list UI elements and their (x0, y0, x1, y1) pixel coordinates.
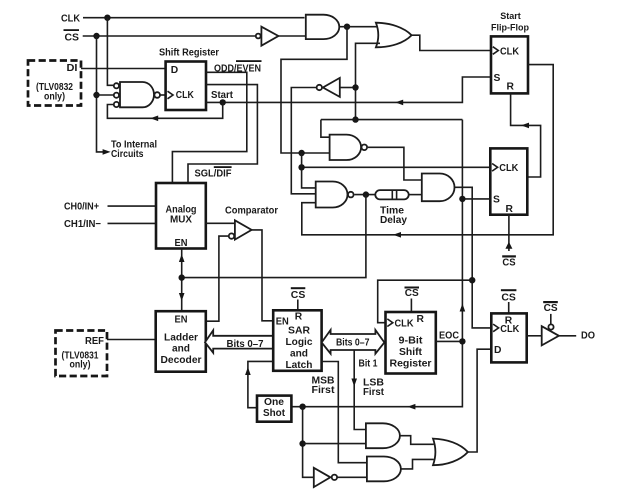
svg-text:S: S (493, 195, 500, 206)
wire FF1 R from FF2 output (511, 93, 541, 177)
svg-text:CLK: CLK (500, 46, 519, 57)
wire CH0 (108, 205, 157, 207)
arrow down on LSB line (351, 379, 357, 387)
box one shot (257, 396, 291, 422)
svg-text:SAR: SAR (288, 326, 311, 337)
wire SAR to one shot (248, 361, 273, 407)
svg-text:Comparator: Comparator (225, 206, 278, 217)
wire U8 out down to MUX EN rail (182, 195, 366, 278)
wire buffer out to AND (278, 35, 305, 37)
svg-text:Shift Register: Shift Register (159, 48, 219, 59)
box 9-bit shift register (386, 312, 436, 374)
svg-text:only): only) (70, 360, 91, 371)
nand gate U1 (3-input, top-left) (120, 82, 154, 107)
wire SGL/DIF to MUX (188, 85, 257, 183)
wire rail to NAND1 top input (321, 120, 330, 138)
svg-text:CS: CS (544, 303, 558, 314)
arrow up into MUX EN (179, 254, 185, 262)
nand gate U7 (2-input) (330, 135, 361, 160)
or gate U4 (top) (376, 23, 412, 48)
and gate U9 (422, 174, 455, 202)
box shift register (166, 62, 206, 111)
wire buffer to DO (559, 335, 576, 337)
nand gate U8 (3-input) (316, 182, 348, 208)
svg-text:Flip-Flop: Flip-Flop (491, 23, 529, 33)
wire Start main run (206, 77, 491, 102)
inverter U5 (left-pointing) (323, 78, 340, 97)
junction CLK (104, 15, 110, 21)
wire CH1 (108, 222, 157, 224)
junction NAND1 lower input tap (298, 150, 304, 156)
wire MUX to comparator (206, 222, 235, 224)
svg-text:R: R (507, 82, 515, 93)
wire EOC (436, 340, 463, 342)
arrow on Start line (395, 100, 403, 106)
bus arrow Bits 0-7 (to ladder) (205, 330, 273, 353)
svg-text:only): only) (44, 92, 65, 103)
svg-text:Latch: Latch (286, 360, 313, 371)
arrow on FF1 R wire (521, 123, 529, 129)
arrow on FF1 feedback (393, 232, 401, 238)
svg-text:CH0/IN+: CH0/IN+ (64, 202, 99, 213)
svg-text:EOC: EOC (439, 331, 459, 342)
svg-text:D: D (171, 65, 178, 76)
junction U8 output (363, 191, 369, 197)
pin CLK of FF2 (492, 164, 498, 172)
svg-text:R: R (506, 204, 514, 215)
wire MUX EN vertical (181, 249, 183, 312)
svg-text:and: and (172, 344, 190, 355)
wire CS drop (97, 36, 104, 152)
time delay element (375, 190, 408, 199)
flip-flop U16 (output FF) (491, 313, 526, 362)
bus arrow Bits 0-7 (double) (322, 330, 385, 354)
wire CS stub to buffer bubble (550, 314, 552, 325)
junction EOC rail top (352, 116, 358, 122)
svg-text:Ladder: Ladder (164, 333, 198, 344)
svg-text:Decoder: Decoder (161, 355, 202, 366)
wire CS stub to 9-bit R (410, 299, 412, 313)
svg-text:and: and (290, 349, 308, 360)
svg-text:Shot: Shot (263, 408, 286, 419)
flip-flop U6 (Start FF) (491, 36, 528, 93)
wire ODD/EVEN to MUX (172, 72, 246, 183)
svg-text:CS: CS (291, 290, 306, 301)
arrow up on EOC vertical (460, 304, 466, 312)
junction MUX EN rail (179, 274, 185, 280)
wire CLK drop to NAND input (107, 18, 113, 86)
wire CLK top rail (83, 17, 305, 19)
and gate U3 (top) (306, 15, 339, 39)
box ladder and decoder (156, 311, 206, 372)
svg-text:R: R (295, 311, 303, 322)
wire AND out down-left to NAND1 (281, 27, 347, 153)
svg-text:Bit 1: Bit 1 (359, 358, 378, 369)
svg-text:9-Bit: 9-Bit (399, 336, 424, 347)
svg-text:SGL/DIF: SGL/DIF (195, 169, 232, 180)
label CS above out FF (501, 289, 517, 291)
overline CS (64, 29, 80, 31)
wire NAND out to SR clock (160, 94, 166, 96)
wire U8 out to time delay (355, 194, 376, 196)
buffer U17 (DO, tri-state) (548, 324, 553, 329)
svg-text:CLK: CLK (176, 90, 194, 101)
svg-text:REF: REF (85, 336, 104, 347)
arrow to internal circuits (103, 149, 111, 155)
wire OR out to FF1 CLK (412, 35, 491, 50)
label CS above SAR (291, 287, 306, 289)
svg-text:Bits 0–7: Bits 0–7 (336, 338, 370, 349)
wire Bit 1 / LSB line (354, 350, 366, 430)
junction AND out (344, 24, 350, 30)
box REF TLV0831 (dashed) (56, 331, 108, 377)
junction CS to NAND (93, 92, 99, 98)
svg-text:MUX: MUX (170, 215, 192, 226)
wire rail down right side (EOC vertical) (291, 120, 462, 407)
svg-text:R: R (417, 314, 425, 325)
svg-text:Delay: Delay (380, 215, 407, 226)
junction U9 line and 9-bit clk feed (469, 277, 475, 283)
flip-flop U10 (second FF) (490, 148, 527, 214)
comparator U11 (235, 220, 252, 239)
wire 9-bit CLK feed (378, 280, 473, 323)
wire to AND b1 lower input (303, 443, 366, 445)
wire CS stub to out FF R (508, 302, 510, 313)
svg-text:First: First (312, 385, 336, 396)
svg-text:CLK: CLK (500, 324, 519, 335)
svg-text:EN: EN (175, 315, 188, 326)
wire OR out up to D (468, 349, 491, 452)
wire CS stub to SAR (297, 300, 299, 311)
svg-text:CS: CS (501, 292, 516, 303)
arrow up on one-shot wire (245, 367, 251, 375)
label CS under FF2 (502, 255, 516, 257)
svg-text:First: First (363, 387, 385, 398)
wire U14 out to OR (401, 459, 434, 469)
wire out FF Q to buffer (527, 335, 542, 337)
wire DI to D input (81, 68, 166, 70)
label CS above DO buffer (543, 301, 558, 303)
junction AND branch (299, 440, 305, 446)
svg-text:CS: CS (65, 33, 80, 44)
box SAR logic and latch (273, 310, 321, 371)
junction CS (93, 33, 99, 39)
label CS above 9-bit (405, 287, 420, 289)
wire comparator out to SAR EN (252, 230, 274, 321)
wire vertical x301.6 (302, 153, 316, 188)
svg-text:One: One (264, 397, 285, 408)
junction inverter input (352, 84, 358, 90)
wire CS to NAND mid input (97, 94, 114, 96)
svg-text:Logic: Logic (286, 337, 313, 348)
wire FF2 CLK line (302, 166, 491, 168)
svg-text:CS: CS (405, 288, 419, 299)
overline DIF (214, 166, 232, 168)
buffer U2 (CS inverter top) (256, 34, 261, 39)
wire FF2 R to CS (508, 215, 510, 251)
wire comparator lower input from ladder (206, 236, 229, 321)
wire horizontal rail y119.6 (321, 119, 463, 121)
and gate U14 (bottom bottom) (367, 457, 401, 482)
box analog MUX (156, 183, 206, 249)
wire inverter out (337, 476, 367, 478)
overline EVEN (236, 60, 262, 62)
svg-text:D: D (494, 345, 501, 356)
pin CLK of shift register (168, 91, 174, 99)
svg-text:DO: DO (581, 331, 595, 342)
svg-text:Circuits: Circuits (111, 149, 144, 160)
svg-text:CLK: CLK (499, 163, 518, 174)
svg-text:Bits 0–7: Bits 0–7 (227, 339, 264, 350)
svg-text:S: S (494, 73, 501, 84)
arrow down into Ladder EN (179, 293, 185, 301)
junction FF2 S (459, 196, 465, 202)
inverter U12 (bottom) (314, 468, 331, 487)
wire AND out to OR (339, 26, 379, 28)
arrow on feedback (150, 116, 158, 122)
svg-text:Register: Register (390, 359, 432, 370)
wire REF to ladder (107, 339, 156, 341)
svg-text:DI: DI (67, 63, 78, 74)
and gate U13 (bottom top) (366, 423, 400, 448)
wire FF1 Q output down right (302, 65, 553, 235)
svg-text:Shift: Shift (399, 347, 423, 358)
wire time delay to AND2 (409, 194, 422, 196)
wire Start feedback to NAND (107, 102, 222, 118)
pin CLK of FF1 (493, 47, 499, 55)
junction Start (220, 99, 226, 105)
wire U13 out to OR (400, 436, 434, 445)
wire U9 out down to out-FF CLK (455, 187, 492, 328)
wire OR bottom input (356, 43, 381, 119)
pin CLK of out FF (493, 324, 499, 332)
svg-text:EN: EN (175, 238, 188, 249)
junction EOC (459, 338, 465, 344)
wire one shot branch down (303, 407, 314, 478)
svg-text:CLK: CLK (395, 319, 414, 330)
wire CS rail to buffer (83, 35, 256, 37)
wire SAR MSB out (322, 362, 367, 463)
junction FF2 CLK tap (298, 164, 304, 170)
wire inverter out to NAND2 (291, 88, 316, 194)
junction one shot out (299, 404, 305, 410)
svg-text:EN: EN (276, 317, 289, 328)
arrow on one-shot line (407, 404, 415, 410)
pin CLK of 9-bit (387, 319, 393, 327)
wire FF2 S input (462, 198, 490, 200)
svg-text:CS: CS (502, 257, 515, 268)
svg-text:Start: Start (500, 11, 521, 21)
svg-text:CH1/IN−: CH1/IN− (64, 219, 101, 230)
wire NAND2(U7) out to AND2 (368, 147, 422, 180)
arrow up into FF2 R (505, 242, 512, 249)
svg-text:CLK: CLK (61, 14, 80, 25)
wire inverter input (340, 87, 356, 89)
box TLV0832 only (dashed) (28, 61, 81, 106)
or gate U15 (bottom) (433, 439, 468, 466)
